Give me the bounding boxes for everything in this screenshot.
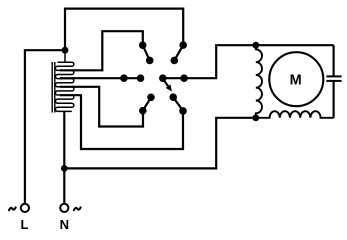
terminal L circle (21, 204, 29, 212)
switch S1 contact link upper-left (143, 45, 150, 60)
motor M circle (269, 52, 323, 106)
terminal N circle (60, 204, 68, 212)
capacitor C plates (326, 76, 341, 81)
svg-text:L: L (21, 217, 29, 232)
node junction at transformer top (62, 47, 69, 54)
switch S1 contact link lower-left (143, 97, 151, 110)
wire transformer bottom to N rail (63, 111, 65, 204)
node junction motor top-left (252, 42, 259, 49)
node junction motor bottom-left (252, 114, 259, 121)
label tilde at N (74, 207, 81, 210)
switch S1 contact link lower-right (173, 97, 183, 111)
wire N rail to motor bottom (64, 118, 256, 169)
wire tap 4 to lower-right contact (60, 95, 183, 149)
wire tap 1 to upper-left contact (60, 31, 143, 70)
switch S1 rotor arrow (163, 79, 172, 91)
inductor main winding (horizontal) (256, 111, 334, 118)
wire L feed up and across to transformer top (25, 50, 65, 204)
switch S1 contact dots (120, 41, 188, 114)
inductor auxiliary winding (vertical) (256, 45, 262, 118)
wire tap 2 to left contact (60, 77, 124, 79)
switch S1 contact link upper-right (174, 45, 183, 60)
wire tap 3 to lower-left contact (60, 87, 143, 127)
wire top rail from transformer top to high-speed contact (65, 9, 183, 51)
switch S1 contact link left (124, 77, 141, 79)
transformer T1 core (52, 62, 55, 113)
svg-text:N: N (60, 217, 69, 232)
capacitor C right branch wires (333, 45, 335, 76)
label tilde at L (9, 207, 16, 210)
motor block top wire (256, 44, 334, 46)
node junction on N wire (61, 165, 68, 172)
svg-text:M: M (290, 72, 302, 88)
wire switch common to motor top (163, 45, 256, 78)
transformer T1 tapped winding (55, 50, 73, 111)
